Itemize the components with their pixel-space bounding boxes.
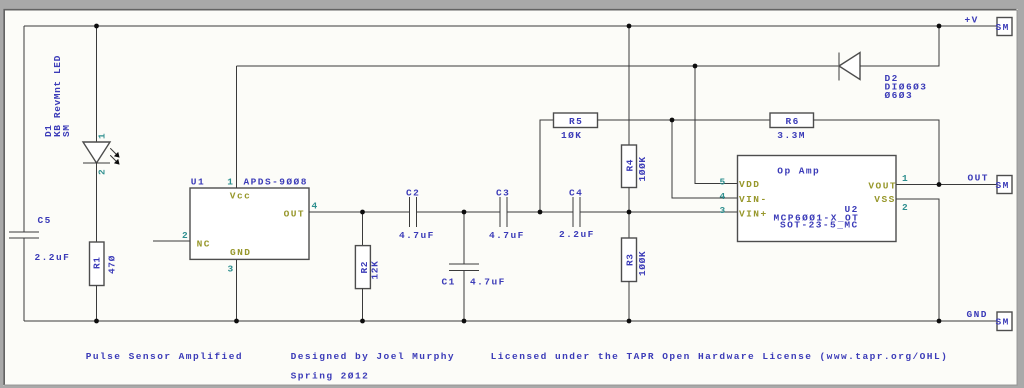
svg-text:2: 2 bbox=[182, 230, 189, 241]
junction R2 at signal node bbox=[360, 210, 365, 215]
svg-text:1ØØK: 1ØØK bbox=[637, 251, 648, 276]
svg-text:4.7uF: 4.7uF bbox=[399, 230, 435, 241]
svg-text:+V: +V bbox=[965, 15, 979, 26]
capacitor C2 bbox=[410, 197, 417, 227]
junction VIN- at feedback line bbox=[670, 118, 675, 123]
svg-text:OUT: OUT bbox=[284, 209, 305, 220]
wire R4 to signal node bbox=[628, 188, 630, 213]
svg-text:Licensed under the TAPR Open H: Licensed under the TAPR Open Hardware Li… bbox=[491, 351, 949, 362]
resistor R1 bbox=[90, 242, 105, 286]
svg-text:2: 2 bbox=[902, 202, 909, 213]
svg-text:GND: GND bbox=[967, 309, 988, 320]
diode D2 bbox=[839, 53, 860, 81]
wire R4 from +V rail bbox=[628, 26, 630, 145]
junction R4 at +V rail bbox=[627, 24, 632, 29]
svg-text:1: 1 bbox=[902, 173, 909, 184]
wire VIN- branch bbox=[672, 120, 738, 198]
svg-text:3: 3 bbox=[720, 205, 727, 216]
wire D1 anode from +V rail bbox=[96, 26, 98, 142]
svg-text:Spring 2Ø12: Spring 2Ø12 bbox=[291, 371, 370, 382]
svg-text:SM: SM bbox=[996, 180, 1010, 191]
connector SM OUT bbox=[997, 176, 1012, 194]
LED D1 bbox=[83, 142, 120, 165]
wire C2 to C3 bbox=[417, 211, 500, 213]
svg-text:Vcc: Vcc bbox=[230, 191, 251, 202]
svg-text:APDS-9ØØ8: APDS-9ØØ8 bbox=[244, 177, 308, 188]
svg-text:R3: R3 bbox=[624, 253, 635, 266]
wire R2 to GND rail bbox=[362, 289, 364, 321]
svg-text:1: 1 bbox=[97, 133, 108, 139]
wire Vcc line to D2 bbox=[237, 65, 840, 67]
wire R6 to VOUT node bbox=[814, 120, 940, 185]
svg-text:NC: NC bbox=[197, 239, 211, 250]
junction R5 at signal node bbox=[538, 210, 543, 215]
wire signal node to R3 bbox=[628, 212, 630, 238]
svg-text:4.7uF: 4.7uF bbox=[470, 277, 506, 288]
svg-text:Pulse Sensor Amplified: Pulse Sensor Amplified bbox=[86, 351, 243, 362]
svg-text:R1: R1 bbox=[92, 256, 103, 269]
wire R5 branch up bbox=[540, 120, 554, 212]
capacitor C1 bbox=[449, 264, 479, 271]
connector SM GND bbox=[997, 312, 1012, 331]
svg-text:Ø6Ø3: Ø6Ø3 bbox=[885, 90, 914, 101]
wire C4 to op-amp VIN+ bbox=[580, 211, 738, 213]
svg-text:C5: C5 bbox=[38, 215, 52, 226]
capacitor C3 bbox=[500, 197, 507, 227]
svg-text:1ØØK: 1ØØK bbox=[637, 156, 648, 181]
svg-text:VIN+: VIN+ bbox=[739, 209, 768, 220]
svg-text:4.7uF: 4.7uF bbox=[489, 230, 525, 241]
junction R6 at VOUT bbox=[937, 182, 942, 187]
svg-text:R2: R2 bbox=[359, 261, 370, 274]
capacitor C5 bbox=[9, 232, 39, 238]
resistor R6 bbox=[770, 113, 814, 128]
svg-text:SM: SM bbox=[61, 124, 72, 137]
svg-text:3.3M: 3.3M bbox=[777, 130, 806, 141]
junction D1 at +V rail bbox=[94, 24, 99, 29]
svg-text:OUT: OUT bbox=[968, 173, 989, 184]
svg-text:Op Amp: Op Amp bbox=[777, 166, 820, 177]
junction C1 at GND rail bbox=[462, 319, 467, 324]
junction R2 at GND rail bbox=[360, 319, 365, 324]
wire VSS to GND rail bbox=[896, 199, 939, 321]
svg-text:2.2uF: 2.2uF bbox=[35, 252, 71, 263]
wire C1 branch down bbox=[463, 212, 465, 264]
wire C5 bottom to GND rail bbox=[23, 238, 25, 321]
junction R1 at GND rail bbox=[94, 319, 99, 324]
svg-text:C3: C3 bbox=[496, 188, 510, 199]
wire R1 to GND rail bbox=[96, 286, 98, 322]
svg-text:VOUT: VOUT bbox=[868, 181, 897, 192]
svg-text:SM: SM bbox=[996, 317, 1010, 328]
svg-text:VSS: VSS bbox=[874, 194, 895, 205]
wire C3 to C4 bbox=[507, 211, 573, 213]
junction R3 at GND rail bbox=[627, 319, 632, 324]
wire R5 to R6 bbox=[598, 119, 771, 121]
wire U1 GND pin to GND rail bbox=[236, 259, 238, 321]
svg-text:4: 4 bbox=[312, 201, 319, 212]
junction VDD at Vcc line bbox=[693, 64, 698, 69]
svg-text:C2: C2 bbox=[406, 188, 420, 199]
wire D2 to +V rail bbox=[860, 26, 939, 66]
svg-text:VIN-: VIN- bbox=[739, 194, 768, 205]
wire R3 to GND rail bbox=[628, 282, 630, 322]
svg-text:Designed by Joel Murphy: Designed by Joel Murphy bbox=[291, 351, 455, 362]
resistor R2 bbox=[355, 246, 370, 289]
junction U1 GND at GND rail bbox=[234, 319, 239, 324]
svg-text:R5: R5 bbox=[569, 116, 583, 127]
svg-text:1: 1 bbox=[227, 177, 234, 188]
svg-text:3: 3 bbox=[228, 264, 235, 275]
capacitor C4 bbox=[573, 197, 580, 227]
wire +V rail bbox=[24, 25, 997, 27]
wire D1 cathode to R1 bbox=[96, 163, 98, 242]
svg-text:U1: U1 bbox=[191, 177, 205, 188]
svg-text:47Ø: 47Ø bbox=[107, 255, 118, 274]
svg-text:SOT-23-5_MC: SOT-23-5_MC bbox=[780, 220, 859, 231]
svg-text:5: 5 bbox=[720, 177, 727, 188]
wire VDD branch bbox=[695, 66, 738, 184]
wire VOUT to OUT connector bbox=[896, 184, 997, 186]
svg-text:VDD: VDD bbox=[739, 179, 760, 190]
wire left vertical to C5 top bbox=[23, 26, 25, 232]
junction C1 at signal node bbox=[462, 210, 467, 215]
junction D2 at +V rail bbox=[937, 24, 942, 29]
IC U1 APDS-9008 bbox=[190, 188, 309, 259]
svg-text:2: 2 bbox=[97, 169, 108, 175]
svg-text:12K: 12K bbox=[370, 261, 381, 280]
junction R4/R3 at signal node bbox=[627, 210, 632, 215]
op-amp U2 bbox=[738, 156, 897, 242]
svg-text:C1: C1 bbox=[442, 277, 456, 288]
wire R2 branch down bbox=[362, 212, 364, 246]
wire U1 Vcc pin up bbox=[236, 66, 238, 188]
svg-text:2.2uF: 2.2uF bbox=[559, 229, 595, 240]
wire GND rail bbox=[24, 320, 997, 322]
svg-text:SM: SM bbox=[996, 22, 1010, 33]
svg-text:1ØK: 1ØK bbox=[561, 130, 582, 141]
connector SM +V bbox=[997, 18, 1012, 36]
wire U1 NC stub bbox=[153, 240, 190, 242]
wire C1 to GND rail bbox=[463, 271, 465, 321]
wire U1 OUT to C2 bbox=[309, 211, 410, 213]
svg-text:GND: GND bbox=[230, 247, 251, 258]
svg-text:R4: R4 bbox=[624, 159, 635, 172]
resistor R3 bbox=[622, 238, 637, 282]
resistor R5 bbox=[554, 113, 598, 128]
svg-text:4: 4 bbox=[720, 191, 727, 202]
resistor R4 bbox=[622, 145, 637, 188]
svg-text:C4: C4 bbox=[569, 188, 583, 199]
junction VSS at GND rail bbox=[937, 319, 942, 324]
svg-text:R6: R6 bbox=[786, 116, 800, 127]
